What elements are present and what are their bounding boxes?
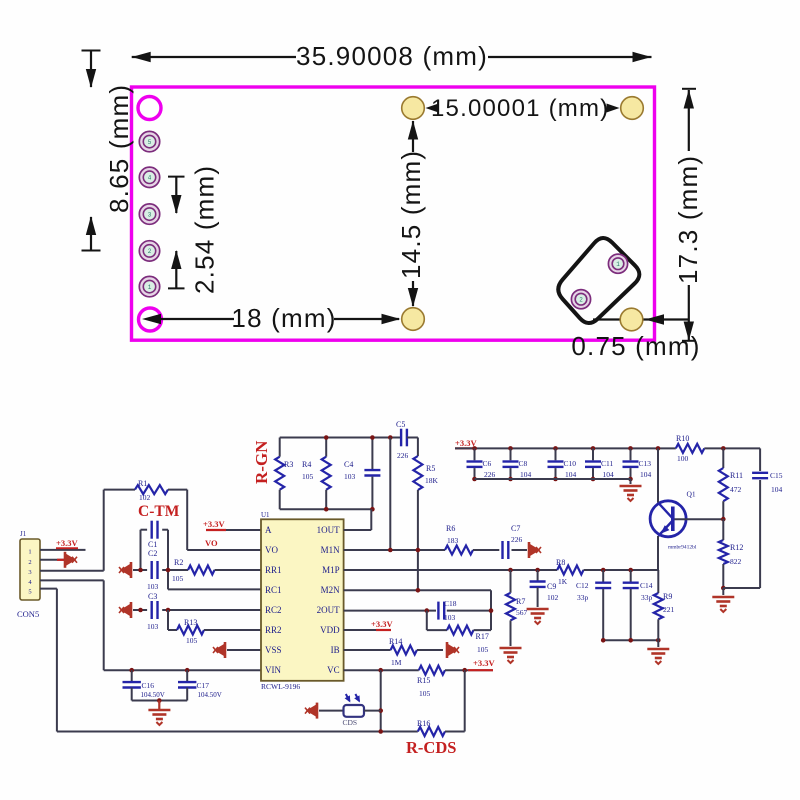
svg-text:M1N: M1N [321, 545, 341, 555]
svg-text:105: 105 [186, 636, 198, 645]
svg-text:C16: C16 [142, 681, 155, 690]
svg-text:226: 226 [484, 470, 496, 479]
svg-text:R13: R13 [184, 618, 197, 627]
svg-text:33p: 33p [577, 593, 589, 602]
svg-text:33p: 33p [641, 593, 653, 602]
svg-text:104: 104 [565, 470, 577, 479]
svg-text:C9: C9 [547, 582, 556, 591]
svg-text:822: 822 [730, 557, 742, 566]
svg-text:Q1: Q1 [687, 490, 696, 499]
svg-text:3: 3 [28, 569, 31, 576]
svg-text:R12: R12 [730, 543, 743, 552]
svg-text:104.50V: 104.50V [198, 691, 222, 699]
svg-text:C6: C6 [483, 459, 492, 468]
svg-text:472: 472 [730, 485, 742, 494]
svg-text:C8: C8 [519, 459, 528, 468]
svg-text:0.75 (mm): 0.75 (mm) [571, 331, 700, 361]
svg-text:VO: VO [205, 538, 218, 548]
svg-text:CON5: CON5 [17, 609, 39, 619]
svg-text:C18: C18 [444, 599, 457, 608]
svg-text:1: 1 [148, 284, 152, 291]
svg-text:1OUT: 1OUT [317, 525, 340, 535]
svg-text:M1P: M1P [322, 565, 340, 575]
svg-text:1: 1 [28, 549, 31, 556]
svg-text:J1: J1 [20, 530, 27, 538]
svg-text:+3.3V: +3.3V [203, 519, 225, 529]
svg-text:102: 102 [139, 493, 151, 502]
svg-text:R7: R7 [516, 597, 525, 606]
svg-text:R8: R8 [556, 558, 565, 567]
svg-text:104: 104 [640, 470, 652, 479]
svg-text:5: 5 [148, 139, 152, 146]
svg-text:15.00001 (mm): 15.00001 (mm) [431, 95, 609, 122]
svg-text:100: 100 [677, 454, 689, 463]
svg-text:C7: C7 [511, 524, 520, 533]
svg-text:R15: R15 [417, 676, 430, 685]
svg-text:R3: R3 [284, 460, 293, 469]
svg-text:+3.3V: +3.3V [473, 658, 495, 668]
svg-text:C11: C11 [601, 459, 613, 468]
svg-text:R9: R9 [663, 592, 672, 601]
svg-text:105: 105 [477, 645, 489, 654]
svg-text:18 (mm): 18 (mm) [231, 303, 336, 333]
svg-text:567: 567 [516, 608, 528, 617]
svg-text:RR1: RR1 [265, 565, 282, 575]
svg-text:U1: U1 [261, 511, 270, 519]
svg-text:2: 2 [579, 296, 583, 303]
svg-text:18K: 18K [425, 476, 439, 485]
svg-text:1M: 1M [391, 658, 402, 667]
svg-text:183: 183 [447, 536, 459, 545]
svg-text:2: 2 [28, 559, 31, 566]
svg-text:103: 103 [147, 622, 159, 631]
svg-text:103: 103 [147, 582, 159, 591]
svg-text:C12: C12 [576, 581, 589, 590]
svg-text:RC1: RC1 [265, 585, 282, 595]
svg-text:RR2: RR2 [265, 625, 282, 635]
svg-text:2: 2 [148, 248, 152, 255]
svg-text:5: 5 [28, 589, 31, 596]
svg-text:2OUT: 2OUT [317, 605, 340, 615]
svg-text:4: 4 [148, 175, 152, 182]
svg-text:C14: C14 [640, 581, 653, 590]
svg-text:R4: R4 [302, 460, 311, 469]
svg-text:105: 105 [302, 472, 314, 481]
svg-text:104: 104 [771, 485, 783, 494]
svg-text:mmbr9412bl: mmbr9412bl [668, 545, 697, 551]
svg-text:+3.3V: +3.3V [56, 538, 78, 548]
svg-text:C4: C4 [344, 460, 353, 469]
svg-text:104: 104 [603, 470, 615, 479]
svg-text:R17: R17 [476, 632, 489, 641]
svg-text:IB: IB [331, 645, 340, 655]
svg-text:1: 1 [616, 261, 620, 268]
svg-text:R10: R10 [676, 434, 689, 443]
svg-text:CDS: CDS [343, 718, 358, 727]
svg-text:VSS: VSS [265, 645, 282, 655]
svg-text:VC: VC [327, 665, 340, 675]
svg-text:RC2: RC2 [265, 605, 282, 615]
svg-text:226: 226 [397, 451, 409, 460]
svg-text:105: 105 [172, 574, 184, 583]
svg-text:C13: C13 [639, 459, 652, 468]
svg-text:103: 103 [344, 472, 356, 481]
svg-text:103: 103 [444, 613, 456, 622]
svg-text:R5: R5 [426, 464, 435, 473]
svg-text:R16: R16 [417, 719, 430, 728]
svg-text:105: 105 [419, 689, 431, 698]
svg-text:8.65 (mm): 8.65 (mm) [104, 84, 134, 213]
svg-text:1K: 1K [558, 577, 568, 586]
svg-text:3: 3 [148, 211, 152, 218]
svg-text:C15: C15 [770, 471, 783, 480]
svg-text:R1: R1 [138, 479, 147, 488]
svg-text:2.54 (mm): 2.54 (mm) [190, 165, 220, 294]
svg-text:C17: C17 [197, 681, 210, 690]
svg-text:RCWL-9196: RCWL-9196 [261, 682, 300, 691]
svg-text:17.3 (mm): 17.3 (mm) [673, 155, 703, 284]
svg-text:VO: VO [265, 545, 278, 555]
svg-text:C5: C5 [396, 420, 405, 429]
svg-text:C3: C3 [148, 592, 157, 601]
svg-text:R6: R6 [446, 524, 455, 533]
svg-text:C-TM: C-TM [138, 503, 180, 520]
svg-text:A: A [265, 525, 272, 535]
svg-text:14.5 (mm): 14.5 (mm) [396, 150, 426, 279]
svg-text:104.50V: 104.50V [141, 691, 165, 699]
svg-text:C2: C2 [148, 549, 157, 558]
svg-text:C10: C10 [564, 459, 577, 468]
svg-text:+3.3V: +3.3V [371, 619, 393, 629]
svg-text:35.90008 (mm): 35.90008 (mm) [296, 41, 488, 71]
svg-text:R11: R11 [730, 471, 743, 480]
svg-text:R-GN: R-GN [252, 440, 271, 484]
svg-text:R14: R14 [389, 637, 402, 646]
svg-text:R2: R2 [174, 558, 183, 567]
svg-text:226: 226 [511, 535, 523, 544]
svg-text:104: 104 [520, 470, 532, 479]
svg-text:VIN: VIN [265, 665, 281, 675]
svg-text:221: 221 [663, 605, 675, 614]
svg-text:VDD: VDD [320, 625, 340, 635]
svg-text:R-CDS: R-CDS [406, 738, 456, 757]
svg-text:C1: C1 [148, 540, 157, 549]
svg-text:102: 102 [547, 593, 559, 602]
svg-text:M2N: M2N [321, 585, 341, 595]
